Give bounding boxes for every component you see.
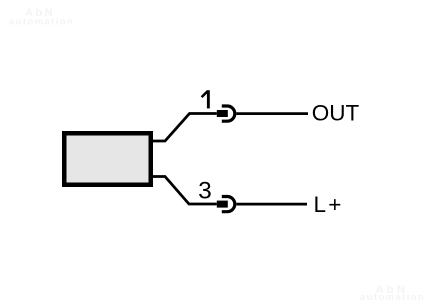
watermark bottom-right (decorative) bbox=[360, 284, 425, 303]
svg-text:L: L bbox=[314, 192, 327, 217]
svg-text:OUT: OUT bbox=[312, 100, 360, 125]
pin number 1 bbox=[202, 90, 210, 108]
sensor body bbox=[64, 133, 151, 185]
wire pin1 from body to connector bbox=[151, 114, 217, 142]
connector socket 1 (female) bbox=[222, 106, 235, 121]
connector socket 3 (female) bbox=[222, 197, 235, 212]
wire to OUT bbox=[236, 112, 308, 115]
connector pin 1 (male) bbox=[217, 110, 228, 117]
watermark top-left (decorative) bbox=[9, 7, 74, 28]
svg-text:automation: automation bbox=[360, 292, 425, 303]
connector pin 3 (male) bbox=[217, 201, 228, 208]
svg-text:+: + bbox=[328, 192, 341, 217]
svg-text:automation: automation bbox=[9, 17, 74, 28]
svg-text:3: 3 bbox=[198, 178, 212, 205]
wire to L+ bbox=[236, 203, 307, 206]
wire pin3 from body to connector bbox=[151, 177, 217, 205]
